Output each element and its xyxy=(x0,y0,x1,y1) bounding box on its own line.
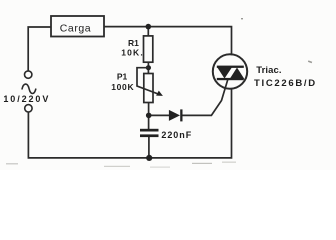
svg-text:Triac.: Triac. xyxy=(256,65,281,76)
svg-text:TIC226B/D: TIC226B/D xyxy=(254,78,317,89)
svg-text:P1: P1 xyxy=(117,72,128,82)
svg-text:220nF: 220nF xyxy=(161,130,192,140)
svg-text:100K: 100K xyxy=(111,82,134,92)
svg-text:R1: R1 xyxy=(128,38,139,48)
svg-text:10K.: 10K. xyxy=(121,48,144,58)
svg-text:10/220V: 10/220V xyxy=(3,94,50,104)
svg-text:Carga: Carga xyxy=(60,22,91,34)
